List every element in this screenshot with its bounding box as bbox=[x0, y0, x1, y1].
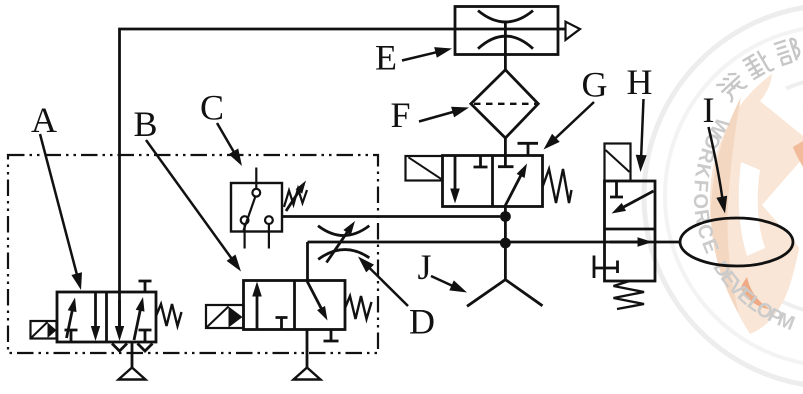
svg-text:O: O bbox=[689, 193, 712, 209]
I actuator ellipse bbox=[680, 218, 793, 266]
E outlet hollow arrow bbox=[558, 22, 580, 40]
svg-text:K: K bbox=[690, 161, 714, 180]
svg-text:A: A bbox=[31, 100, 57, 140]
valve H upper-cell port T bbox=[610, 181, 623, 197]
wire: junction link vertical bbox=[504, 217, 507, 244]
E throttle body rect bbox=[455, 7, 558, 55]
valve B blocked port T (bottom of left cell) bbox=[276, 318, 288, 330]
valve H blocked port (left, with outside plug) bbox=[594, 256, 618, 279]
label D arrow bbox=[358, 257, 408, 307]
valve H upper-cell flow arrow (diagonal) bbox=[612, 191, 654, 214]
D adjustment arrow bbox=[327, 221, 356, 263]
watermark: WDA seal background bbox=[644, 5, 803, 387]
valve G external plugged port T bbox=[518, 143, 539, 155]
J air-bleed whisker symbol bbox=[467, 243, 543, 306]
valve A body (5/2 valve) bbox=[57, 292, 156, 342]
label B arrow bbox=[146, 140, 241, 272]
E center stem down to F bbox=[504, 22, 507, 71]
valve A right-cell flow arrow (down, from supply wire) bbox=[115, 300, 124, 341]
valve B return spring bbox=[345, 296, 372, 319]
svg-text:I: I bbox=[703, 90, 715, 130]
node: junction dot upper bbox=[500, 211, 511, 222]
label H arrow bbox=[636, 99, 647, 172]
valve G return spring bbox=[543, 169, 572, 203]
valve G body (3/2 valve) bbox=[443, 156, 543, 207]
valve A blocked port T (bottom right) bbox=[139, 330, 152, 342]
D throttle valve arcs bbox=[318, 226, 369, 260]
valve G bottom port line bbox=[504, 207, 507, 217]
valve A blocked port T (bottom left) bbox=[65, 330, 78, 342]
dash-dot enclosure box bbox=[8, 155, 378, 353]
label J arrow bbox=[431, 276, 467, 293]
valve H lower-cell flow arrow (through) bbox=[610, 237, 653, 247]
svg-text:C: C bbox=[200, 88, 224, 128]
valve B blocked port T (below right cell) bbox=[324, 330, 339, 342]
svg-text:F: F bbox=[689, 179, 712, 193]
valve B body (3/2 valve) bbox=[244, 281, 346, 330]
label F arrow bbox=[419, 107, 469, 122]
valve H solenoid box bbox=[605, 144, 631, 182]
svg-text:G: G bbox=[582, 65, 608, 105]
valve G left-cell port T bbox=[474, 156, 488, 168]
valve G left-cell flow arrow (down) bbox=[450, 156, 460, 204]
label E arrow bbox=[402, 47, 452, 60]
svg-text:H: H bbox=[627, 62, 653, 102]
valve B right-cell flow arrow (diagonal down) bbox=[307, 281, 328, 321]
valve A blocked port T (top right) bbox=[139, 281, 152, 292]
component labels A-J bbox=[31, 38, 715, 342]
valve G pilot box bbox=[406, 156, 443, 181]
label C arrow bbox=[217, 123, 242, 166]
valve H bottom return spring bbox=[614, 281, 645, 309]
C adjustable spring bbox=[284, 189, 307, 208]
valve A solenoid box bbox=[31, 321, 57, 339]
C spring adjustment arrow bbox=[286, 181, 306, 212]
svg-text:D: D bbox=[409, 302, 435, 342]
label A arrow bbox=[40, 134, 82, 290]
C switch contacts (circles) bbox=[241, 189, 273, 224]
wire: B top port up to D level bbox=[306, 242, 309, 281]
svg-text:E: E bbox=[375, 38, 397, 78]
valve G right-cell flow arrow (diagonal up) bbox=[505, 164, 527, 207]
wire: C output to junction bbox=[282, 215, 500, 218]
svg-text:B: B bbox=[134, 104, 158, 144]
valve A exhaust line and silencer triangle bbox=[119, 342, 146, 380]
F filter diamond bbox=[471, 70, 538, 138]
valve B exhaust line and silencer triangle bbox=[294, 330, 321, 380]
E throttle arcs bbox=[478, 11, 533, 49]
C terminal stems bbox=[245, 168, 269, 249]
valve B solenoid box bbox=[206, 305, 244, 328]
valve A return spring bbox=[156, 304, 182, 326]
valve A left-cell flow arrow (diagonal up) bbox=[67, 298, 77, 339]
label I arrow bbox=[709, 127, 728, 214]
valve A right-cell flow arrow (diagonal up) bbox=[134, 297, 145, 340]
wire: top supply line from valve A up and across to E bbox=[120, 29, 559, 326]
svg-text:F: F bbox=[391, 95, 411, 135]
valve H body (vertical 2-position) bbox=[605, 181, 656, 281]
F outlet stem into G with port T bbox=[498, 138, 514, 167]
C switch lever bbox=[244, 197, 256, 231]
svg-text:J: J bbox=[418, 247, 432, 287]
label G arrow bbox=[544, 102, 595, 150]
valve B left-cell flow arrow (up) bbox=[252, 282, 262, 330]
C pressure switch box bbox=[231, 183, 282, 232]
F filter dashed element bbox=[474, 103, 536, 105]
wire: main line at y=242 through D to H and ellipse I bbox=[308, 241, 681, 244]
valve A exhaust V ports bbox=[112, 344, 153, 352]
node: junction dot lower bbox=[500, 238, 511, 249]
valve A left-cell flow arrow (down) bbox=[91, 292, 100, 341]
